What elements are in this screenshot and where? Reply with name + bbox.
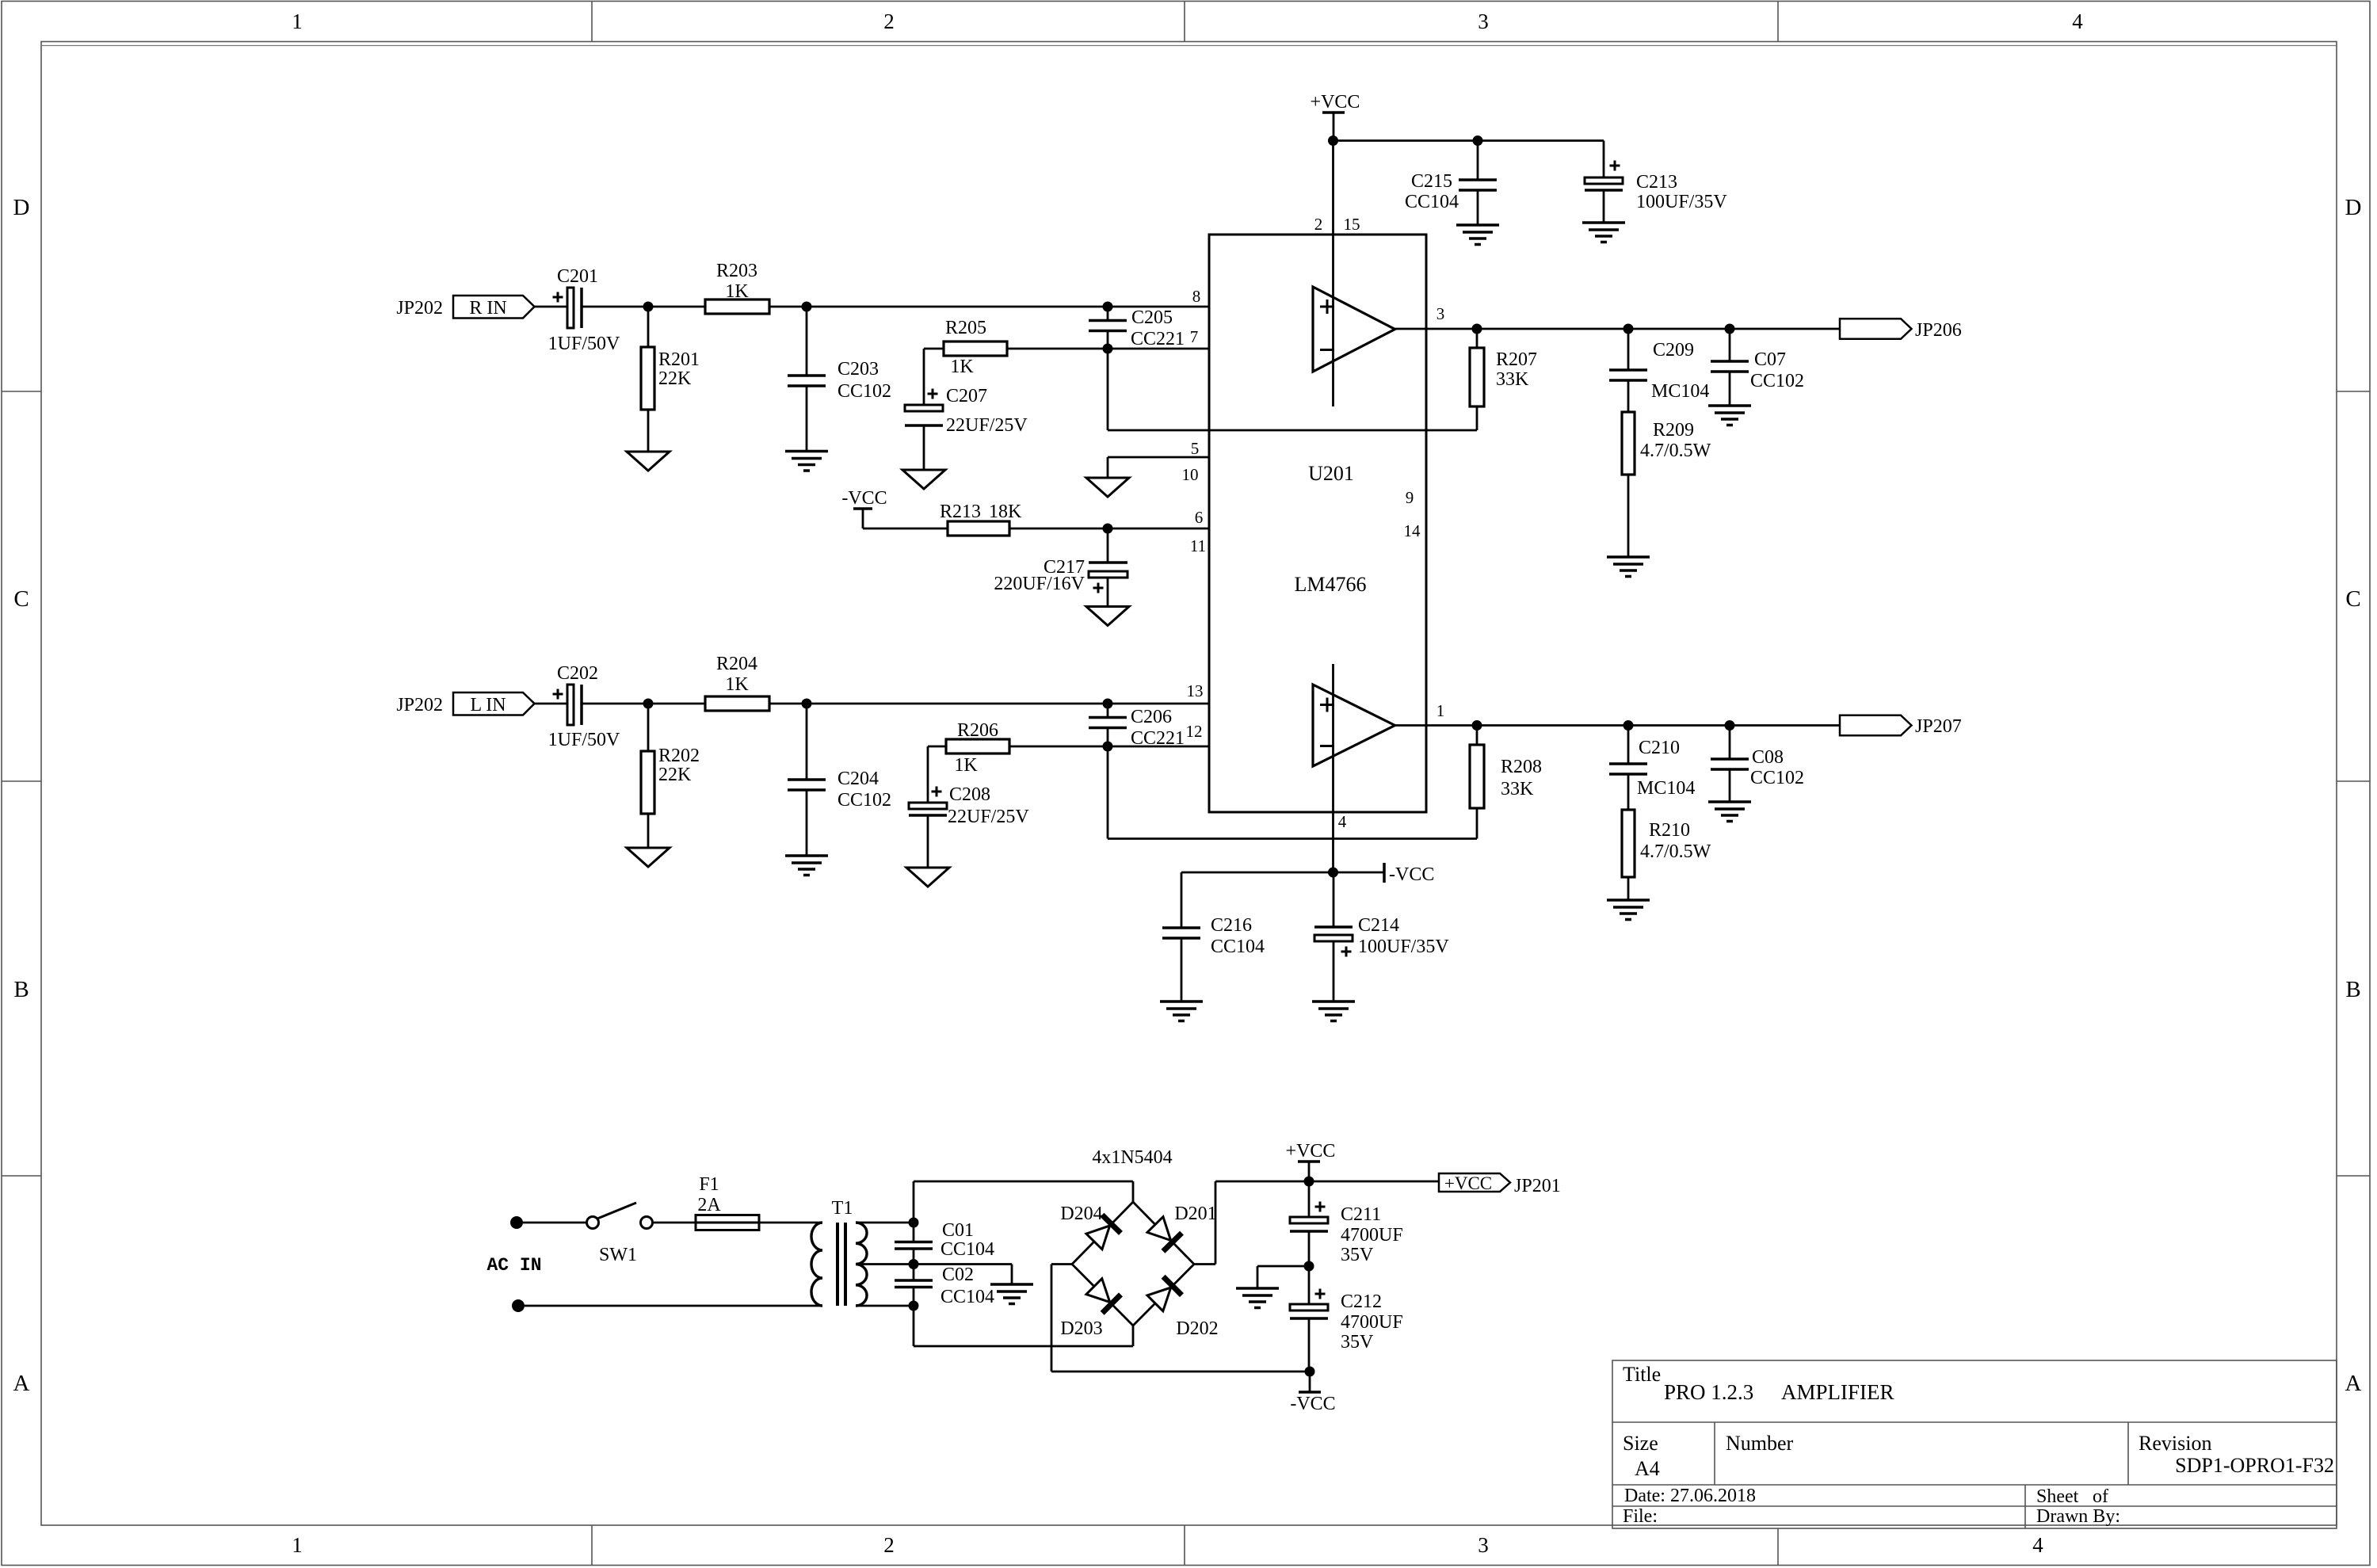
svg-text:Number: Number — [1726, 1432, 1794, 1455]
svg-text:C: C — [13, 586, 29, 612]
capacitor C204 — [806, 704, 808, 780]
svg-text:C215: C215 — [1411, 171, 1452, 192]
resistor R202 — [647, 704, 650, 751]
node junction R213/C217 — [1103, 524, 1113, 534]
svg-text:L IN: L IN — [470, 695, 506, 715]
diode D203 — [1085, 1277, 1120, 1313]
wire AC top to SW1 — [523, 1222, 587, 1224]
svg-text:5: 5 — [1191, 439, 1200, 458]
svg-text:SDP1-OPRO1-F32: SDP1-OPRO1-F32 — [2175, 1454, 2334, 1477]
wire +VCC rail — [1333, 139, 1604, 142]
node junction output/C209 — [1623, 324, 1634, 334]
svg-text:2A: 2A — [697, 1195, 721, 1215]
diode bridge edge D201 — [1133, 1202, 1194, 1265]
diode bridge edge D204 — [1072, 1202, 1133, 1265]
svg-text:22UF/25V: 22UF/25V — [948, 807, 1029, 827]
svg-text:C07: C07 — [1754, 349, 1786, 370]
svg-text:1UF/50V: 1UF/50V — [548, 730, 620, 750]
wire bridge bottom rail — [914, 1345, 1133, 1348]
svg-text:1: 1 — [1437, 701, 1445, 720]
svg-text:C214: C214 — [1358, 915, 1399, 936]
op-amp U201B minus sign — [1320, 745, 1334, 747]
border row tick D|C left — [2, 391, 41, 392]
capacitor C212 — [1308, 1266, 1311, 1304]
svg-text:MC104: MC104 — [1637, 778, 1695, 799]
node junction +VCC/opamp — [1328, 135, 1338, 146]
svg-text:1UF/50V: 1UF/50V — [548, 334, 620, 354]
svg-text:C213: C213 — [1636, 172, 1677, 193]
connector JP201 flag — [1439, 1173, 1510, 1192]
resistor R203 — [705, 299, 769, 314]
svg-text:CC102: CC102 — [837, 790, 891, 811]
svg-text:C207: C207 — [946, 386, 987, 406]
resistor R206 — [946, 739, 1009, 753]
svg-text:CC104: CC104 — [1405, 192, 1459, 212]
connector JP207 flag — [1840, 715, 1912, 736]
capacitor C02 — [895, 1279, 933, 1282]
svg-text:3: 3 — [1478, 1533, 1489, 1557]
svg-text:B: B — [13, 977, 29, 1002]
border row tick C|B right — [2337, 780, 2370, 782]
capacitor C201 plate - — [580, 288, 583, 328]
svg-text:R204: R204 — [716, 654, 757, 674]
ground C213 bars — [1582, 221, 1625, 224]
svg-text:4: 4 — [2032, 1533, 2043, 1557]
svg-text:C01: C01 — [942, 1220, 974, 1241]
svg-text:PRO 1.2.3: PRO 1.2.3 — [1664, 1380, 1753, 1404]
transformer T1 primary winding — [811, 1223, 822, 1306]
diode D204 — [1085, 1215, 1120, 1250]
wire SW1 to F1 — [653, 1222, 696, 1224]
capacitor C217 plus sign — [1093, 587, 1104, 589]
capacitor C212 plus sign — [1315, 1293, 1326, 1295]
resistor R205 — [944, 341, 1007, 356]
svg-text:JP206: JP206 — [1915, 320, 1962, 341]
node junction +VCC/C215 — [1473, 135, 1483, 146]
resistor R208 — [1476, 726, 1478, 746]
svg-text:C204: C204 — [837, 769, 879, 789]
wire secondary column bottom — [913, 1288, 915, 1347]
svg-text:C211: C211 — [1341, 1204, 1381, 1225]
svg-text:CC104: CC104 — [940, 1287, 994, 1307]
svg-text:SW1: SW1 — [599, 1245, 637, 1265]
diode D201 — [1146, 1215, 1181, 1251]
svg-text:B: B — [2345, 977, 2360, 1002]
node junction secondary top — [909, 1218, 919, 1228]
wire bridge plus vertex — [1194, 1263, 1215, 1265]
svg-text:R IN: R IN — [469, 298, 506, 319]
border row tick D|C right — [2337, 391, 2370, 392]
svg-text:Title: Title — [1623, 1363, 1661, 1386]
port L IN flag — [453, 692, 535, 715]
svg-text:CC221: CC221 — [1131, 329, 1185, 349]
wire C201 to R203 — [582, 306, 705, 308]
svg-text:4.7/0.5W: 4.7/0.5W — [1640, 441, 1711, 461]
svg-text:C02: C02 — [942, 1265, 974, 1285]
svg-text:LM4766: LM4766 — [1295, 573, 1367, 596]
capacitor C208 plate - — [909, 814, 947, 817]
ground C08 bars — [1708, 800, 1751, 803]
transformer T1 secondary winding — [856, 1223, 867, 1306]
svg-text:9: 9 — [1406, 488, 1414, 507]
title block divider number|revision — [2127, 1422, 2129, 1485]
svg-text:12: 12 — [1186, 722, 1203, 741]
node junction C211/C212 — [1304, 1261, 1314, 1272]
svg-text:22UF/25V: 22UF/25V — [946, 415, 1028, 436]
svg-text:D201: D201 — [1174, 1204, 1216, 1224]
node junction C212/-VCC — [1305, 1367, 1315, 1377]
border column tick 3|4 bottom — [1777, 1528, 1779, 1566]
svg-text:A: A — [13, 1371, 30, 1396]
svg-text:15: 15 — [1344, 215, 1360, 234]
svg-text:JP202: JP202 — [396, 298, 443, 319]
wire R213 to pin 6 — [1009, 528, 1209, 530]
ground center tap bars — [990, 1283, 1033, 1286]
capacitor C202 plate - — [580, 685, 583, 725]
node junction main/C205 — [1103, 302, 1113, 312]
border column tick 1|2 bottom — [591, 1525, 593, 1566]
ground C214 bars — [1312, 1000, 1355, 1003]
wire output pin3 to JP206 — [1395, 328, 1841, 330]
svg-text:A4: A4 — [1635, 1457, 1660, 1480]
wire R208 to feedback — [1476, 808, 1478, 839]
ground R202 triangle — [627, 848, 670, 867]
capacitor C207 plate + — [905, 405, 943, 411]
svg-text:3: 3 — [1437, 304, 1445, 323]
capacitor C211 plus sign — [1315, 1206, 1326, 1208]
wire R205 to pin 7 — [1007, 348, 1209, 350]
capacitor C201 plus sign — [553, 296, 563, 299]
svg-text:+VCC: +VCC — [1444, 1173, 1492, 1193]
op-amp U201A plus sign — [1320, 306, 1334, 308]
svg-text:C201: C201 — [557, 266, 598, 287]
svg-text:CC104: CC104 — [940, 1239, 994, 1260]
wire bridge top rail — [914, 1181, 1133, 1183]
wire -VCC node — [1181, 872, 1384, 874]
svg-text:MC104: MC104 — [1651, 381, 1709, 402]
resistor R209 — [1627, 380, 1630, 412]
capacitor C208 plus sign — [932, 791, 942, 793]
svg-text:1: 1 — [292, 1533, 303, 1557]
svg-text:R205: R205 — [945, 318, 986, 338]
svg-text:Revision: Revision — [2139, 1432, 2211, 1455]
node junction output/R208 — [1472, 720, 1482, 731]
svg-text:C08: C08 — [1752, 747, 1784, 768]
connector JP206 flag — [1840, 319, 1912, 339]
wire secondary bottom lead — [856, 1305, 914, 1307]
svg-text:-VCC: -VCC — [841, 488, 887, 509]
wire C202 to R204 — [582, 703, 705, 705]
wire C204 to ground — [806, 790, 808, 856]
wire center tap to ground — [914, 1263, 1012, 1265]
svg-text:33K: 33K — [1501, 779, 1534, 799]
ground C07 bars — [1708, 404, 1751, 407]
ground R201 triangle — [627, 452, 670, 471]
svg-text:35V: 35V — [1341, 1245, 1374, 1265]
svg-text:U201: U201 — [1308, 462, 1354, 485]
svg-text:4700UF: 4700UF — [1341, 1225, 1403, 1246]
wire feedback L channel — [1107, 746, 1109, 839]
wire -VCC to R213 — [863, 528, 948, 530]
svg-text:1K: 1K — [950, 357, 974, 377]
svg-text:2: 2 — [883, 10, 895, 33]
capacitor C214 — [1333, 872, 1335, 927]
switch SW1 pole — [587, 1217, 599, 1229]
svg-text:C208: C208 — [949, 784, 990, 805]
capacitor C07 — [1729, 329, 1731, 361]
svg-text:F1: F1 — [699, 1174, 719, 1195]
node junction secondary bottom — [909, 1301, 919, 1311]
svg-text:File:: File: — [1623, 1506, 1658, 1527]
wire C203 to ground — [806, 386, 808, 452]
title block outline — [1612, 1360, 2337, 1528]
wire R209 to ground — [1627, 475, 1630, 557]
svg-text:22K: 22K — [658, 368, 692, 389]
node junction output/R207 — [1472, 324, 1482, 334]
node junction +VCC/C211 — [1304, 1177, 1314, 1187]
ground C208 triangle — [906, 868, 949, 887]
svg-text:4: 4 — [2072, 10, 2083, 33]
capacitor C213 plus sign — [1610, 165, 1620, 167]
svg-text:CC104: CC104 — [1211, 937, 1265, 957]
node junction output/C08 — [1725, 720, 1735, 731]
ground C203 bars — [785, 450, 828, 453]
wire pin 5 to ground — [1108, 456, 1209, 459]
svg-text:D: D — [13, 195, 30, 220]
svg-text:-VCC: -VCC — [1389, 864, 1434, 885]
svg-text:C203: C203 — [837, 359, 879, 380]
resistor R207 — [1476, 329, 1478, 348]
wire C07 to ground — [1729, 372, 1731, 406]
wire mid to ground — [1257, 1265, 1309, 1268]
svg-text:Size: Size — [1623, 1432, 1658, 1455]
wire C208 to ground — [927, 815, 929, 868]
title block line size/date — [1612, 1484, 2337, 1486]
diode D202 — [1146, 1276, 1181, 1312]
wire secondary top lead — [856, 1222, 914, 1224]
capacitor C202 plate + — [567, 685, 574, 725]
wire C08 to ground — [1729, 769, 1731, 802]
border column tick 1|2 top — [591, 2, 593, 42]
title block line date/file — [1612, 1505, 2337, 1507]
svg-text:4.7/0.5W: 4.7/0.5W — [1640, 841, 1711, 862]
title block divider size|number — [1714, 1422, 1715, 1485]
svg-text:2: 2 — [1314, 215, 1323, 234]
wire +VCC rail bottom — [1215, 1181, 1439, 1183]
wire output pin1 to JP207 — [1395, 724, 1841, 727]
svg-text:R213: R213 — [940, 502, 981, 522]
svg-text:R202: R202 — [658, 746, 700, 766]
capacitor C202 plus sign — [553, 693, 563, 696]
capacitor C215 — [1477, 141, 1479, 181]
svg-text:R210: R210 — [1649, 820, 1690, 841]
op-amp U201A V+ line pins 2/15 — [1332, 141, 1334, 407]
wire R IN flag to C201 — [535, 306, 568, 308]
diode bridge edge D202 — [1133, 1265, 1194, 1326]
op-amp U201A triangle — [1313, 287, 1395, 372]
capacitor C01 — [895, 1241, 933, 1244]
svg-text:18K: 18K — [989, 502, 1022, 522]
svg-text:R209: R209 — [1653, 420, 1694, 441]
wire L IN flag to C202 — [535, 703, 568, 705]
svg-text:33K: 33K — [1496, 369, 1529, 390]
svg-text:R203: R203 — [716, 261, 757, 281]
svg-text:1: 1 — [292, 10, 303, 33]
svg-text:11: 11 — [1190, 536, 1206, 555]
svg-text:8: 8 — [1192, 287, 1201, 306]
svg-text:CC221: CC221 — [1131, 728, 1185, 749]
ground C211/C212 mid bars — [1236, 1287, 1279, 1290]
border column tick 2|3 top — [1184, 2, 1185, 42]
node junction output/C07 — [1725, 324, 1735, 334]
border row tick B|A left — [2, 1175, 41, 1177]
svg-text:R207: R207 — [1496, 349, 1537, 370]
svg-text:Sheet: Sheet — [2036, 1486, 2079, 1507]
wire AC bottom to T1 primary — [525, 1305, 822, 1307]
svg-text:JP201: JP201 — [1514, 1176, 1561, 1196]
svg-text:R208: R208 — [1501, 757, 1542, 777]
capacitor C217 — [1107, 528, 1109, 563]
switch SW1 lever — [597, 1203, 636, 1219]
ground R210 bars — [1607, 898, 1650, 902]
node junction secondary center — [909, 1259, 919, 1269]
svg-text:C202: C202 — [557, 663, 598, 684]
wire -VCC rail bottom — [1051, 1371, 1310, 1373]
svg-text:-VCC: -VCC — [1290, 1394, 1335, 1414]
wire secondary center tap — [856, 1263, 914, 1265]
fuse F1 — [696, 1215, 759, 1230]
node junction main/C206 — [1103, 699, 1113, 709]
resistor R213 — [948, 521, 1009, 536]
svg-text:C210: C210 — [1639, 738, 1680, 758]
wire C207 to ground — [923, 425, 925, 470]
border row tick C|B left — [2, 780, 41, 782]
title block line title/size — [1612, 1421, 2337, 1423]
svg-text:1K: 1K — [725, 674, 749, 695]
svg-text:4: 4 — [1338, 812, 1347, 831]
capacitor C208 plate + — [909, 803, 947, 809]
terminal AC IN bottom — [512, 1299, 525, 1312]
ground pin5/10 triangle — [1086, 478, 1129, 497]
svg-text:Date: 27.06.2018: Date: 27.06.2018 — [1624, 1486, 1756, 1506]
ground C215 bars — [1456, 223, 1499, 227]
op-amp U201A minus sign — [1320, 349, 1334, 351]
capacitor C211 — [1308, 1181, 1311, 1217]
svg-text:R201: R201 — [658, 349, 700, 370]
node junction output/C210 — [1623, 720, 1634, 731]
svg-text:R206: R206 — [957, 720, 998, 741]
svg-text:C: C — [2345, 586, 2360, 612]
capacitor C205 — [1107, 307, 1109, 321]
capacitor C203 — [806, 307, 808, 376]
svg-text:100UF/35V: 100UF/35V — [1636, 192, 1727, 212]
svg-text:C212: C212 — [1341, 1291, 1382, 1312]
wire R204 to pin 13 — [769, 703, 1209, 705]
ground C204 bars — [785, 854, 828, 857]
capacitor C08 — [1729, 726, 1731, 760]
svg-text:AMPLIFIER: AMPLIFIER — [1781, 1380, 1894, 1404]
ground R209 bars — [1607, 555, 1650, 559]
svg-text:4700UF: 4700UF — [1341, 1312, 1403, 1333]
resistor R204 — [705, 696, 769, 711]
svg-text:D: D — [2345, 195, 2362, 220]
capacitor C206 — [1107, 704, 1109, 718]
border column tick 2|3 bottom — [1184, 1525, 1185, 1566]
capacitor C207 plus sign — [928, 393, 938, 395]
svg-text:14: 14 — [1404, 521, 1421, 540]
wire R207 to feedback — [1476, 406, 1478, 430]
ground C217 triangle — [1086, 607, 1129, 626]
node junction C201/R201 — [643, 302, 654, 312]
svg-text:AC IN: AC IN — [486, 1255, 541, 1276]
svg-text:10: 10 — [1182, 465, 1199, 484]
ground C216 bars — [1160, 1000, 1203, 1003]
svg-text:of: of — [2093, 1486, 2108, 1507]
svg-text:C206: C206 — [1131, 707, 1172, 727]
wire R203 to pin 8 — [769, 306, 1209, 308]
svg-text:JP202: JP202 — [396, 695, 443, 715]
border row tick B|A right — [2337, 1175, 2370, 1177]
wire secondary column top — [913, 1181, 915, 1242]
wire C215 to ground — [1477, 190, 1479, 225]
power port -VCC bottom — [1309, 1372, 1311, 1392]
svg-text:13: 13 — [1187, 681, 1204, 700]
capacitor C213 — [1603, 141, 1605, 178]
wire R210 to ground — [1627, 877, 1630, 900]
svg-text:35V: 35V — [1341, 1332, 1374, 1352]
svg-text:D204: D204 — [1060, 1204, 1102, 1224]
svg-text:CC102: CC102 — [1750, 768, 1804, 788]
switch SW1 throw — [641, 1217, 653, 1229]
wire R202 to ground — [647, 814, 650, 848]
svg-text:C209: C209 — [1653, 340, 1694, 361]
capacitor C209 — [1627, 329, 1630, 370]
wire R201 to ground — [647, 410, 650, 452]
capacitor C214 plus sign — [1341, 951, 1352, 953]
power port -VCC (pin4) — [1383, 863, 1386, 883]
wire R205 to C207 — [923, 349, 925, 405]
svg-text:3: 3 — [1478, 10, 1489, 33]
node junction R203/C203 — [802, 302, 812, 312]
wire secondary column mid — [913, 1249, 915, 1280]
svg-text:1K: 1K — [954, 755, 978, 776]
svg-text:JP207: JP207 — [1915, 716, 1962, 737]
svg-text:D203: D203 — [1060, 1318, 1102, 1339]
svg-text:4x1N5404: 4x1N5404 — [1092, 1147, 1172, 1168]
svg-text:220UF/16V: 220UF/16V — [994, 574, 1085, 594]
op-amp U201B plus sign — [1320, 704, 1334, 706]
capacitor C207 plate - — [905, 424, 943, 427]
svg-text:22K: 22K — [658, 765, 692, 785]
svg-text:+VCC: +VCC — [1286, 1141, 1336, 1162]
op-amp U201B V- line pin 4 — [1332, 664, 1334, 872]
ground C207 triangle — [902, 470, 945, 489]
op-amp U201B triangle — [1313, 685, 1395, 766]
svg-text:Drawn By:: Drawn By: — [2036, 1506, 2120, 1527]
svg-text:A: A — [2345, 1371, 2362, 1396]
svg-text:C205: C205 — [1131, 307, 1173, 328]
node junction C206/R206/feedback — [1103, 742, 1113, 752]
svg-text:CC102: CC102 — [1750, 371, 1804, 391]
border inner frame top second line — [41, 45, 2337, 47]
wire C216 to ground — [1181, 938, 1183, 1001]
node junction C202/R202 — [643, 699, 654, 709]
node junction R204/C204 — [802, 699, 812, 709]
capacitor C210 — [1627, 726, 1630, 765]
svg-text:CC102: CC102 — [837, 381, 891, 402]
port R IN flag — [453, 296, 535, 319]
svg-text:T1: T1 — [832, 1198, 853, 1219]
